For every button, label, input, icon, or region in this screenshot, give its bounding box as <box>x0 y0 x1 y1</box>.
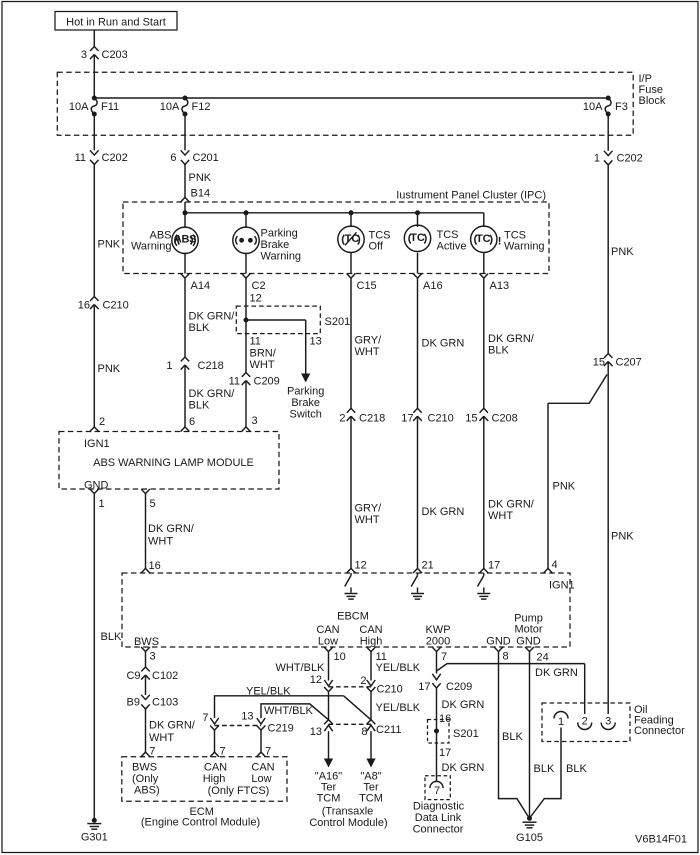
svg-text:7: 7 <box>220 746 226 758</box>
label BRN/WHT <box>250 348 277 372</box>
wire: C219-13 to ECM CAN Low <box>260 730 262 753</box>
svg-text:TCM: TCM <box>359 793 383 805</box>
wire BLK: EBCM 8 to G105 <box>499 652 529 817</box>
svg-text:DK GRN/: DK GRN/ <box>488 333 535 345</box>
wire GRY/WHT: C15 to C218 <box>350 278 352 408</box>
TCS Off indicator lamp <box>338 226 364 252</box>
wire YEL/BLK: EBCM 11 to C210 <box>370 652 372 681</box>
wire bus to TCS Off indicator <box>350 213 352 227</box>
fuse F11 10A <box>69 96 119 117</box>
svg-text:A13: A13 <box>490 280 510 292</box>
svg-text:CAN: CAN <box>316 624 339 636</box>
connector C102 pin C9 <box>126 667 178 682</box>
svg-text:CAN: CAN <box>251 762 274 774</box>
svg-text:BLK: BLK <box>488 344 509 356</box>
svg-text:A14: A14 <box>191 280 211 292</box>
wire branch: S201 to parking brake switch <box>246 319 306 321</box>
label Diagnostic Data Link Connector <box>413 801 465 836</box>
ABS Warning indicator lamp <box>172 227 198 253</box>
terminal funnel below C210 pin 2 <box>367 687 376 692</box>
svg-text:TCS: TCS <box>437 229 459 241</box>
svg-text:KWP: KWP <box>425 624 450 636</box>
terminal funnel below C219 pin 7 <box>210 726 219 731</box>
wire: EBCM 3 to C102 <box>145 652 147 667</box>
Parking Brake Warning indicator lamp <box>233 227 259 253</box>
wire PNK: C210 to module <box>93 305 95 428</box>
wire indicator to IPC edge <box>417 253 419 274</box>
junction dot parking bus <box>244 210 249 215</box>
fuse F3 10A <box>583 96 628 117</box>
wire: S201 to C209 <box>245 320 247 373</box>
svg-text:YEL/BLK: YEL/BLK <box>376 662 421 674</box>
svg-text:GRY/: GRY/ <box>355 335 383 347</box>
label Transaxle Control Module <box>309 806 387 829</box>
internal ground switch for pin 21 <box>411 573 424 599</box>
svg-text:Diagnostic: Diagnostic <box>413 801 465 813</box>
svg-text:10: 10 <box>334 651 346 663</box>
svg-text:C218: C218 <box>359 413 385 425</box>
label CAN High <box>359 624 382 647</box>
wire YEL/BLK: C210-2 down <box>370 692 372 720</box>
label A16 Ter TCM <box>315 771 342 805</box>
svg-text:WHT/BLK: WHT/BLK <box>276 662 326 674</box>
svg-text:C201: C201 <box>193 152 219 164</box>
label Parking Brake Switch <box>287 386 324 421</box>
svg-text:(Only FTCS): (Only FTCS) <box>208 785 270 797</box>
terminal A13 exit <box>479 274 509 293</box>
svg-text:GND: GND <box>84 480 109 492</box>
ECM box <box>122 757 287 802</box>
internal ground switch for pin 12 <box>345 573 358 599</box>
label DK GRN/WHT <box>149 720 196 745</box>
arrow to parking brake switch <box>301 374 310 383</box>
connector C218 pin 2 <box>339 408 385 424</box>
svg-text:1: 1 <box>558 716 564 728</box>
power feed box: Hot in Run and Start <box>55 12 177 31</box>
svg-text:High: High <box>360 635 383 647</box>
wire: C209 to module <box>245 381 247 428</box>
svg-text:C211: C211 <box>376 724 401 736</box>
fuse bus wire <box>94 97 608 99</box>
svg-text:7: 7 <box>434 785 440 797</box>
svg-text:1: 1 <box>594 153 600 165</box>
svg-text:10A: 10A <box>160 101 180 113</box>
wire PNK: C202 to C210 <box>93 165 95 297</box>
junction dot S201 <box>434 729 439 734</box>
svg-text:2: 2 <box>99 416 105 428</box>
connector C103 pin B9 <box>127 695 179 709</box>
svg-text:IGN1: IGN1 <box>549 580 575 592</box>
terminal 5 exit module <box>141 489 156 510</box>
svg-text:8: 8 <box>503 651 509 663</box>
svg-text:GND: GND <box>516 635 541 647</box>
svg-text:5: 5 <box>150 498 156 510</box>
svg-text:ABS): ABS) <box>134 785 160 797</box>
svg-text:Switch: Switch <box>289 409 321 421</box>
internal ground switch for pin 17 <box>477 573 490 599</box>
EBCM box <box>122 573 570 647</box>
pin 1 arc terminal <box>554 712 568 729</box>
svg-text:Connector: Connector <box>634 725 685 737</box>
Instrument Panel Cluster (IPC) box <box>123 202 549 274</box>
svg-text:F12: F12 <box>192 101 211 113</box>
svg-text:(Transaxle: (Transaxle <box>322 806 374 818</box>
label GRY/WHT <box>355 335 383 358</box>
svg-text:2: 2 <box>339 413 345 425</box>
fuse F12 10A <box>160 96 211 117</box>
ground G301 <box>81 818 108 844</box>
svg-text:6: 6 <box>189 416 195 428</box>
terminal 6 entry ABS module <box>181 427 190 432</box>
svg-text:TC: TC <box>476 233 491 245</box>
svg-text:Brake: Brake <box>261 239 290 251</box>
svg-text:F11: F11 <box>101 101 119 113</box>
terminal 12 entry EBCM <box>347 568 356 573</box>
wire PNK: C201 to IPC B14 <box>184 165 186 198</box>
wire indicator to IPC edge <box>184 253 186 274</box>
wire: C211-8 to TCM A8 <box>366 725 375 767</box>
terminal 21 entry EBCM <box>413 568 422 573</box>
connector C207 pin 15 <box>593 354 642 369</box>
connector C202 pin 1 <box>594 151 643 165</box>
svg-text:BLK: BLK <box>534 763 555 775</box>
svg-text:(Engine Control Module): (Engine Control Module) <box>141 817 260 829</box>
svg-text:15: 15 <box>465 413 477 425</box>
splice S201 box <box>428 720 450 744</box>
svg-text:3: 3 <box>605 716 611 728</box>
wire: C102 to C103 <box>145 675 147 695</box>
svg-text:7: 7 <box>441 651 447 663</box>
wire WHT/BLK branch to C219 <box>261 704 329 720</box>
svg-text:C210: C210 <box>428 413 454 425</box>
terminal 10 exit EBCM <box>324 647 346 663</box>
svg-text:2: 2 <box>582 716 588 728</box>
wire GRY/WHT: C218 to EBCM 12 <box>350 416 352 568</box>
svg-text:Parking: Parking <box>261 228 298 240</box>
TCS Active indicator lamp <box>404 225 430 251</box>
svg-text:DK GRN/: DK GRN/ <box>149 720 196 732</box>
label BWS (Only ABS) <box>132 762 160 797</box>
label GRY/WHT <box>355 503 383 526</box>
label TCS Warning <box>504 230 545 253</box>
svg-text:B9: B9 <box>127 697 140 709</box>
svg-text:A16: A16 <box>423 280 443 292</box>
connector C202 pin 11 <box>75 150 128 164</box>
svg-text:12: 12 <box>355 560 367 572</box>
svg-text:F3: F3 <box>615 101 628 113</box>
wire DK GRN/WHT: C103 to ECM <box>145 709 147 753</box>
wire bus to TCS Active indicator <box>417 213 419 227</box>
terminal entry ECM CAN Low <box>257 752 266 757</box>
wire DK GRN: EBCM 24 to G105 <box>529 652 531 817</box>
svg-text:TC: TC <box>410 232 425 244</box>
pin 3 arc terminal <box>601 716 615 730</box>
svg-text:BLK: BLK <box>566 763 587 775</box>
svg-text:DK GRN/: DK GRN/ <box>189 388 236 400</box>
wire WHT/BLK: EBCM 10 to C210 <box>328 652 330 681</box>
svg-text:PNK: PNK <box>611 246 634 258</box>
terminal B14 entry into IPC <box>181 197 190 202</box>
pin 2 arc terminal <box>578 716 592 730</box>
terminal 1 exit module <box>90 489 105 510</box>
svg-text:Parking: Parking <box>287 386 324 398</box>
label TCS Off <box>369 230 391 253</box>
svg-text:B14: B14 <box>191 188 211 200</box>
wire YEL/BLK branch to C219 <box>215 696 344 718</box>
svg-text:High: High <box>203 773 226 785</box>
wire bus to ABS indicator <box>184 213 186 227</box>
terminal A14 exit <box>181 274 210 293</box>
svg-text:C103: C103 <box>152 697 178 709</box>
ground G105 <box>516 816 543 844</box>
svg-text:WHT: WHT <box>149 732 174 744</box>
svg-text:WHT: WHT <box>488 510 513 522</box>
wire: F3 to C202 <box>607 114 609 151</box>
terminal 11 exit EBCM <box>367 647 387 663</box>
I/P Fuse Block label <box>639 73 666 107</box>
wire indicator to IPC edge <box>245 253 247 274</box>
in-line connector C219 <box>215 723 294 735</box>
svg-text:1: 1 <box>166 360 172 372</box>
connector C210 pin 17 <box>401 408 454 424</box>
connector C209 pin 17 <box>418 681 472 693</box>
svg-text:BLK: BLK <box>189 322 210 334</box>
svg-text:17: 17 <box>439 747 451 759</box>
svg-text:C102: C102 <box>152 670 178 682</box>
svg-text:G301: G301 <box>81 832 108 844</box>
wire DK GRN/BLK: A13 to C208 <box>483 278 485 408</box>
svg-text:C208: C208 <box>492 413 518 425</box>
svg-text:WHT: WHT <box>355 514 380 526</box>
wire: A14 to C218 <box>184 278 186 357</box>
svg-text:Block: Block <box>639 95 666 107</box>
svg-text:17: 17 <box>488 560 500 572</box>
svg-text:21: 21 <box>422 560 434 572</box>
svg-text:13: 13 <box>241 711 253 723</box>
svg-text:BWS: BWS <box>134 636 159 648</box>
junction dot TCS active bus <box>415 210 420 215</box>
wire tap to oil feeding pin 2 <box>437 664 585 671</box>
svg-text:BLK: BLK <box>101 631 122 643</box>
svg-text:12: 12 <box>310 674 322 686</box>
svg-text:Connector: Connector <box>413 823 464 835</box>
svg-text:2: 2 <box>360 675 366 687</box>
junction dot S201 <box>244 318 249 323</box>
svg-text:10A: 10A <box>69 101 89 113</box>
svg-text:BRN/: BRN/ <box>250 348 277 360</box>
wire: F12 to C201 <box>184 114 186 150</box>
svg-text:16: 16 <box>78 300 90 312</box>
svg-text:G105: G105 <box>516 832 543 844</box>
svg-text:Warning: Warning <box>261 251 302 263</box>
svg-text:BLK: BLK <box>502 731 523 743</box>
TCS Warning indicator lamp <box>471 226 502 252</box>
svg-text:(Only: (Only <box>132 773 159 785</box>
svg-text:C209: C209 <box>254 376 280 388</box>
label Pump Motor GND <box>514 613 543 648</box>
wire indicator to IPC edge <box>483 253 485 274</box>
svg-text:WHT: WHT <box>250 359 275 371</box>
pin 7 arc terminal <box>430 781 443 796</box>
svg-text:GND: GND <box>486 635 511 647</box>
wire: EBCM 7 KWP2000 down <box>436 652 438 674</box>
svg-text:Active: Active <box>437 241 467 253</box>
svg-text:1: 1 <box>99 498 105 510</box>
in-line connector C211 <box>329 724 402 736</box>
wire DK GRN/WHT: C208 to EBCM 17 <box>483 416 485 568</box>
svg-text:17: 17 <box>401 413 413 425</box>
svg-text:8: 8 <box>361 726 367 738</box>
terminal C2 exit <box>242 274 266 293</box>
chevron above C211 pin 13 <box>324 720 333 725</box>
I/P Fuse Block box <box>57 72 633 135</box>
svg-text:YEL/BLK: YEL/BLK <box>246 686 291 698</box>
wire bus to Parking indicator <box>245 213 247 227</box>
svg-text:13: 13 <box>310 726 322 738</box>
svg-text:TCM: TCM <box>317 793 341 805</box>
svg-text:CAN: CAN <box>359 624 382 636</box>
svg-text:C15: C15 <box>357 280 377 292</box>
svg-text:PNK: PNK <box>553 481 576 493</box>
label A8 Ter TCM <box>359 771 383 805</box>
svg-text:Low: Low <box>251 773 271 785</box>
svg-text:16: 16 <box>149 560 161 572</box>
wire PNK: C207 down to oil feeding connector <box>607 362 609 715</box>
wire: C218 to module <box>184 365 186 427</box>
svg-text:GRY/: GRY/ <box>355 503 383 515</box>
svg-text:Iustrument Panel Cluster (IPC): Iustrument Panel Cluster (IPC) <box>396 190 546 202</box>
svg-text:DK GRN/: DK GRN/ <box>189 311 236 323</box>
svg-text:DK GRN: DK GRN <box>422 338 465 350</box>
terminal 24 exit EBCM <box>525 647 549 664</box>
label Oil Feading Connector <box>634 704 685 737</box>
svg-text:ABS WARNING LAMP MODULE: ABS WARNING LAMP MODULE <box>93 457 254 469</box>
label Parking Brake Warning <box>261 228 302 263</box>
terminal 3 exit EBCM <box>141 647 156 663</box>
svg-text:WHT/BLK: WHT/BLK <box>264 705 314 717</box>
label DK GRN/BLK <box>189 388 236 411</box>
svg-text:3: 3 <box>81 49 87 61</box>
svg-text:Data Link: Data Link <box>415 812 462 824</box>
svg-text:S201: S201 <box>325 316 351 328</box>
label DK GRN/BLK <box>488 333 535 356</box>
svg-text:C209: C209 <box>446 681 472 693</box>
terminal entry ECM CAN High <box>210 752 219 757</box>
connector C208 pin 15 <box>465 408 518 424</box>
wire DK GRN: A16 to C210 <box>417 278 419 408</box>
svg-text:24: 24 <box>537 652 549 664</box>
junction dot TCS off bus <box>349 210 354 215</box>
wire: feed box to C203 <box>93 30 95 47</box>
junction dot B14/bus <box>183 210 188 215</box>
svg-text:Warning: Warning <box>504 241 545 253</box>
svg-text:C219: C219 <box>268 723 294 735</box>
label CAN Low <box>316 624 339 647</box>
wire DK GRN/WHT: module 5 to EBCM 16 <box>145 494 147 569</box>
wire: C211-13 to TCM A16 <box>324 725 333 767</box>
svg-text:DK GRN: DK GRN <box>535 667 578 679</box>
label DK GRN/BLK <box>189 311 236 335</box>
in-line connector C210 <box>329 684 403 696</box>
svg-text:7: 7 <box>202 712 208 724</box>
svg-text:15: 15 <box>593 357 605 369</box>
wire DK GRN: C210 to EBCM 21 <box>417 416 419 568</box>
svg-text:DK GRN: DK GRN <box>422 506 465 518</box>
svg-text:DK GRN: DK GRN <box>442 699 485 711</box>
svg-text:DK GRN/: DK GRN/ <box>148 523 195 535</box>
wire PNK: C202 to C207 <box>607 165 609 354</box>
svg-text:BLK: BLK <box>189 399 210 411</box>
label ABS Warning <box>131 230 172 253</box>
svg-text:C210: C210 <box>103 300 129 312</box>
svg-text:7: 7 <box>149 746 155 758</box>
svg-text:S201: S201 <box>453 728 479 740</box>
svg-text:17: 17 <box>418 681 430 693</box>
svg-text:4: 4 <box>552 559 558 571</box>
svg-text:DK GRN/: DK GRN/ <box>488 499 535 511</box>
terminal C15 exit <box>347 274 377 293</box>
svg-text:C203: C203 <box>102 49 128 61</box>
label KWP 2000 <box>425 624 450 647</box>
svg-text:C2: C2 <box>252 280 266 292</box>
svg-text:Warning: Warning <box>131 241 172 253</box>
connector C209 pin 11 <box>229 373 280 388</box>
wire BLK: oil pin 1 to G105 <box>531 728 561 817</box>
svg-text:C202: C202 <box>102 152 128 164</box>
connector C203 pin 3 <box>81 47 128 62</box>
Diagnostic Data Link Connector box <box>425 776 450 800</box>
svg-text:3: 3 <box>252 415 258 427</box>
label TCS Active <box>437 229 467 253</box>
wire branch: C207 to EBCM IGN1 <box>548 375 607 404</box>
svg-text:C210: C210 <box>377 684 403 696</box>
svg-text:WHT: WHT <box>148 536 173 548</box>
wire DK GRN: C209 to S201 <box>436 688 438 731</box>
svg-text:YEL/BLK: YEL/BLK <box>376 702 421 714</box>
terminal 4 entry EBCM <box>544 568 553 573</box>
svg-text:BWS: BWS <box>132 762 157 774</box>
wire indicator to IPC edge <box>350 253 352 274</box>
svg-text:10A: 10A <box>583 101 603 113</box>
svg-text:IGN1: IGN1 <box>84 438 110 450</box>
terminal funnel below C219 pin 13 <box>257 726 266 731</box>
svg-text:WHT: WHT <box>355 346 380 358</box>
terminal 7 exit EBCM <box>432 647 447 663</box>
wire: C219-7 to ECM CAN High <box>214 730 216 753</box>
svg-text:Hot in Run and Start: Hot in Run and Start <box>66 17 166 29</box>
svg-text:DK GRN: DK GRN <box>442 762 485 774</box>
svg-text:!: ! <box>498 235 502 247</box>
svg-text:Off: Off <box>369 241 384 253</box>
svg-text:2000: 2000 <box>426 635 450 647</box>
IPC internal bus wire <box>184 202 186 213</box>
ABS Warning Lamp Module box <box>59 432 279 490</box>
svg-text:11: 11 <box>250 336 261 348</box>
chevron above C211 pin 8 <box>367 720 376 725</box>
svg-text:C202: C202 <box>617 153 643 165</box>
svg-text:Brake: Brake <box>291 397 320 409</box>
Oil Feading Connector box <box>542 703 630 742</box>
wire BLK: module to G301 <box>93 494 95 819</box>
terminal A16 exit <box>413 274 442 293</box>
splice S201 box <box>236 306 320 334</box>
wire: F11 to C202 <box>93 114 95 150</box>
svg-text:V6B14F01: V6B14F01 <box>635 834 687 846</box>
terminal 8 exit EBCM <box>494 647 509 663</box>
label CAN Low <box>251 762 274 786</box>
svg-text:Control Module): Control Module) <box>309 817 387 829</box>
svg-text:13: 13 <box>310 336 322 348</box>
